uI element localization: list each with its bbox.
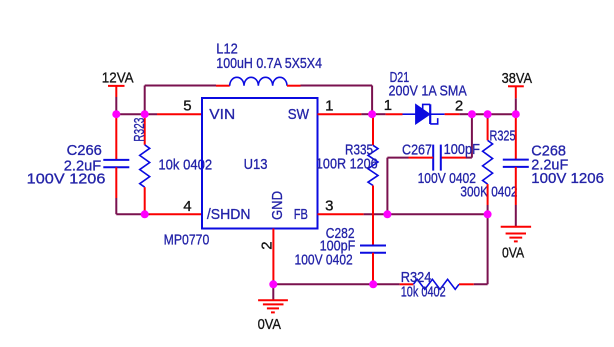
svg-text:0VA: 0VA: [502, 244, 524, 261]
wire SW pin lead: [318, 113, 362, 115]
wire C267 right lead: [441, 157, 466, 159]
node VIN-12VA junction: [112, 110, 120, 118]
wire top rail right riser: [371, 86, 373, 115]
resistor R323: [131, 118, 212, 188]
resistor R335: [316, 142, 378, 186]
node output-38VA junction: [512, 110, 520, 118]
wire GND pin lead: [272, 229, 274, 281]
op-amp U13: [164, 98, 318, 249]
wire output node horizontal: [472, 113, 516, 115]
svg-text:U13: U13: [244, 156, 268, 173]
wire C268 top lead: [515, 114, 517, 118]
wire C267 left lead: [409, 157, 434, 159]
wire C282 bottom lead: [372, 253, 374, 281]
wire bottom bus: [273, 283, 399, 285]
svg-text:0VA: 0VA: [258, 316, 281, 333]
wire SHDN pin lead: [150, 213, 203, 215]
svg-text:100V 1206: 100V 1206: [27, 171, 106, 188]
power symbol 12VA: [102, 70, 134, 97]
wire FB node to R325 bottom: [387, 213, 487, 215]
wire cathode to output node: [460, 113, 472, 115]
svg-text:100uH 0.7A 5X5X4: 100uH 0.7A 5X5X4: [216, 55, 322, 72]
svg-text:/SHDN: /SHDN: [207, 206, 251, 223]
wire R324 to FB riser: [474, 214, 488, 284]
diode D21: [389, 69, 467, 124]
svg-text:100R 1206: 100R 1206: [316, 156, 378, 173]
wire inductor left lead: [216, 85, 230, 87]
ground 0VA middle: [258, 300, 288, 333]
svg-text:MP0770: MP0770: [164, 232, 210, 249]
wire R325 top lead: [487, 114, 489, 119]
resistor R325: [460, 127, 517, 200]
svg-text:10k 0402: 10k 0402: [401, 284, 446, 301]
wire R323 top lead: [144, 114, 146, 145]
svg-text:FB: FB: [294, 206, 308, 223]
svg-text:12VA: 12VA: [102, 70, 134, 87]
svg-text:300K 0402: 300K 0402: [460, 183, 517, 200]
wire 38VA stem: [515, 98, 517, 114]
node VIN-R323 junction: [141, 110, 149, 118]
wire C268 bottom lead: [515, 167, 517, 205]
inductor L12: [216, 40, 322, 85]
wire 12VA stem: [115, 97, 117, 114]
wire SW to node: [361, 113, 372, 115]
node output-C267 junction: [468, 110, 476, 118]
node FB-R324 junction: [484, 210, 492, 218]
svg-text:3: 3: [325, 198, 333, 215]
wire diode anode lead: [386, 113, 403, 115]
node bus-C282 junction: [369, 280, 377, 288]
wire SW node to diode: [372, 113, 386, 115]
svg-text:C266: C266: [67, 142, 102, 159]
svg-text:1: 1: [325, 98, 333, 115]
wire SHDN node horizontal: [145, 213, 150, 215]
wire C267 left to FB node: [387, 158, 408, 215]
power symbol 38VA: [502, 70, 532, 98]
capacitor C267: [402, 141, 480, 187]
wire top rail to inductor: [145, 85, 216, 87]
wire C267 right riser: [466, 114, 472, 157]
svg-text:100pF: 100pF: [444, 141, 480, 158]
node SHDN-R323 junction: [141, 210, 149, 218]
node output-R325 junction: [484, 110, 492, 118]
wire FB pin lead: [318, 213, 364, 215]
wire FB to divider node: [364, 213, 388, 215]
svg-text:GND: GND: [269, 191, 286, 220]
wire top rail to SW node: [301, 85, 373, 87]
svg-text:5: 5: [183, 98, 191, 115]
node FB-C267 junction: [383, 210, 391, 218]
wire ground stem: [272, 284, 274, 300]
wire C266 to SHDN line: [116, 198, 144, 214]
svg-text:R323: R323: [131, 118, 148, 142]
svg-text:2: 2: [455, 98, 463, 115]
svg-text:38VA: 38VA: [502, 70, 532, 87]
wire R324 right lead: [459, 283, 474, 285]
capacitor C268: [503, 143, 604, 188]
svg-text:10k 0402: 10k 0402: [158, 157, 212, 174]
svg-text:SW: SW: [288, 106, 310, 123]
node SW junction: [368, 110, 376, 118]
wire C268 to ground: [515, 205, 517, 227]
wire R335 top lead: [372, 114, 374, 145]
svg-text:100V 0402: 100V 0402: [295, 252, 353, 269]
wire VIN pin lead: [157, 113, 202, 115]
svg-text:C267: C267: [402, 141, 432, 158]
wire top rail left riser: [144, 86, 146, 115]
capacitor C282: [295, 225, 387, 269]
wire C266 top lead: [115, 114, 117, 160]
svg-text:100V 1206: 100V 1206: [531, 170, 604, 187]
wire C266 bottom lead: [115, 167, 117, 198]
capacitor C266: [27, 142, 130, 188]
svg-text:4: 4: [183, 198, 191, 215]
wire R323 bottom lead: [144, 187, 146, 214]
wire diode cathode lead: [445, 113, 460, 115]
svg-text:R325: R325: [490, 127, 516, 144]
node GND junction: [269, 280, 277, 288]
wire inductor right lead: [287, 85, 301, 87]
wire VIN node horizontal: [116, 113, 157, 115]
svg-text:1: 1: [384, 97, 392, 114]
wire R324 left lead: [400, 283, 414, 285]
wire R335 bottom to C282: [372, 186, 374, 246]
wire R325 bottom lead: [487, 184, 489, 205]
ground 0VA right: [501, 227, 531, 261]
resistor R324: [401, 269, 459, 300]
svg-text:VIN: VIN: [209, 106, 235, 123]
